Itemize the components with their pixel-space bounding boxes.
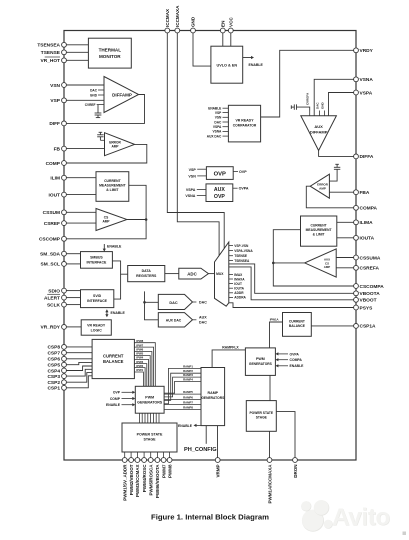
svg-text:LOGIC: LOGIC [91, 328, 103, 332]
svg-text:SM_SDA: SM_SDA [40, 252, 61, 258]
svg-text:PSYS: PSYS [360, 305, 374, 311]
svg-text:IMAXA: IMAXA [234, 277, 245, 281]
block: VR ready comparator [207, 105, 261, 142]
svg-text:THERMAL: THERMAL [99, 48, 122, 53]
wire VCC to UVLO [230, 33, 232, 47]
wire IPW8 [134, 339, 155, 386]
wire mux output to PSYS [229, 303, 354, 308]
corner mark [403, 532, 407, 536]
svg-text:DATA: DATA [142, 269, 152, 273]
svg-text:IPW7: IPW7 [136, 343, 143, 347]
pin PWM2/VBOOT [129, 458, 134, 496]
svg-text:ENABLE: ENABLE [111, 311, 126, 315]
op-amp AUX CS AMP [305, 249, 337, 277]
pin CSP5 [47, 362, 92, 368]
svg-text:GND: GND [320, 102, 324, 110]
pin PWM7 [161, 458, 166, 478]
block: current balance [92, 339, 134, 378]
svg-text:VSN: VSN [188, 175, 196, 179]
wire CM&L output / CSCOMP [66, 185, 146, 239]
svg-text:CSP2: CSP2 [47, 380, 60, 386]
svg-text:OVP: OVP [239, 170, 247, 174]
svg-text:MUX: MUX [216, 272, 224, 276]
block: power state stage [122, 423, 177, 452]
wire aux CM&L left to CSCOMPA [273, 230, 354, 286]
svg-text:IOUT: IOUT [49, 192, 61, 198]
wire CSREFA [336, 267, 354, 269]
svg-text:ICCMAX: ICCMAX [165, 8, 170, 27]
svg-text:VR READY: VR READY [87, 323, 106, 327]
wire ICCMAXA bus to mux [177, 33, 219, 260]
svg-text:CVREF: CVREF [85, 103, 96, 107]
svg-text:VSP: VSP [50, 98, 60, 104]
block: aux power state stage [246, 401, 276, 432]
pin VSNA [354, 77, 374, 83]
pin SCLK [47, 302, 81, 308]
block: SVID interface [81, 290, 114, 308]
pin SM_SDA [40, 251, 81, 257]
wire RAMP3 [164, 373, 201, 397]
svg-text:VSP: VSP [215, 111, 222, 115]
svg-text:PWM4/ROSC: PWM4/ROSC [142, 464, 147, 493]
svg-text:STAGE: STAGE [256, 415, 268, 419]
svg-text:SMBUS: SMBUS [90, 255, 103, 259]
svg-text:DIFFAMP: DIFFAMP [310, 130, 328, 135]
pin VR_HOT [41, 57, 89, 64]
mux MUX [215, 242, 254, 306]
wire+capacitor CVREFA [291, 92, 309, 111]
svg-text:MEASUREMENT: MEASUREMENT [99, 184, 126, 188]
svg-text:AMP: AMP [102, 220, 110, 224]
svg-text:IOUTA: IOUTA [234, 287, 244, 291]
svg-text:CURRENT: CURRENT [104, 179, 122, 183]
pin CSSUM [43, 210, 96, 216]
svg-text:VSPA: VSPA [213, 125, 222, 129]
svg-text:RAMP4: RAMP4 [183, 377, 193, 381]
wire RAMP4 [164, 377, 201, 393]
svg-text:COMPARATOR: COMPARATOR [233, 124, 257, 128]
svg-text:OVPA: OVPA [239, 187, 249, 191]
svg-text:CSCOMPA: CSCOMPA [360, 284, 385, 290]
svg-text:CSREFA: CSREFA [360, 266, 380, 272]
svg-text:GND: GND [90, 94, 98, 98]
svg-text:IPW2: IPW2 [136, 364, 143, 368]
svg-text:DAC: DAC [90, 89, 98, 93]
capacitor on ERROR AMP ref [97, 132, 103, 140]
pin PWM4/ROSC [142, 458, 147, 493]
wire ENABLE into SMBus [103, 244, 122, 252]
pin CSP2 [47, 373, 92, 386]
block: thermal monitor U-THERM [88, 38, 131, 68]
svg-text:CSREF: CSREF [44, 221, 60, 227]
svg-text:VR READY: VR READY [235, 119, 254, 123]
svg-text:GENERATORS: GENERATORS [201, 396, 225, 400]
pin VSPA [354, 90, 373, 96]
pin TSENSE [41, 50, 89, 56]
pin DIFF [49, 121, 66, 127]
svg-text:RAMP: RAMP [208, 391, 219, 395]
wire VSNA to AUX DIFFAMP [314, 79, 354, 115]
block: aux current measurement and limit [301, 216, 337, 246]
svg-text:ICCMAXA: ICCMAXA [175, 5, 180, 27]
pin VRDY [354, 48, 374, 54]
pin DRON [293, 458, 298, 478]
svg-text:PWM: PWM [145, 396, 154, 400]
pin IOUTA [354, 235, 375, 241]
node CS amp output junction [145, 218, 148, 221]
wire ENABLE of ramp generators [178, 424, 201, 428]
svg-text:ALERT: ALERT [44, 295, 60, 301]
svg-text:IMAX: IMAX [234, 273, 243, 277]
wire IPW7 [134, 343, 153, 386]
svg-text:OVP: OVP [214, 194, 225, 200]
pin VSN [50, 83, 104, 89]
svg-text:SDIO: SDIO [48, 288, 60, 294]
svg-text:SVID: SVID [93, 294, 102, 298]
svg-text:SCLK: SCLK [47, 302, 61, 308]
svg-text:RAMP6: RAMP6 [183, 396, 193, 400]
svg-text:AUX DAC: AUX DAC [166, 318, 182, 322]
wire ADC to mux [208, 273, 214, 275]
block: aux current balance [283, 313, 312, 337]
pin COMPA [354, 205, 378, 211]
svg-text:PWM7: PWM7 [161, 464, 166, 478]
wire RAMP2 [164, 369, 201, 400]
wire RAMP5 [164, 390, 201, 394]
pin CSCOMPA [354, 284, 385, 290]
svg-text:INTERFACE: INTERFACE [87, 299, 108, 303]
svg-text:ENABLE: ENABLE [107, 245, 122, 249]
svg-text:CURRENT: CURRENT [103, 354, 124, 359]
svg-text:CSP1A: CSP1A [360, 324, 377, 330]
svg-text:PWM: PWM [256, 357, 265, 361]
pin FB [54, 146, 105, 152]
pin PWM1A/ICCMAXA [267, 458, 272, 504]
svg-text:AUX: AUX [314, 124, 323, 129]
svg-text:DIFF: DIFF [49, 121, 60, 127]
svg-text:VR_HOT: VR_HOT [41, 58, 61, 64]
wire CS AMP output [127, 219, 146, 221]
wire ERROR AMP output to COMP [66, 144, 147, 163]
pin EN [220, 20, 225, 33]
svg-text:VBOOTA: VBOOTA [360, 291, 381, 297]
wire PWM outputs to power state stage [139, 413, 159, 423]
wire IPW3 [134, 360, 146, 387]
wire ENABLE into PWM generators [106, 403, 135, 407]
node aux CS amp junction [272, 262, 275, 265]
IC border [64, 31, 356, 461]
svg-text:ADDR: ADDR [234, 291, 244, 295]
wire RAMPFLX to aux PWM generators [212, 345, 245, 367]
wire COMPA into aux PWM generators [275, 358, 302, 362]
svg-text:PWM1A/ICCMAXA: PWM1A/ICCMAXA [267, 464, 272, 504]
block: ramp generators [201, 368, 225, 426]
svg-text:& LIMIT: & LIMIT [313, 233, 325, 237]
svg-text:COMP: COMP [46, 161, 61, 167]
wire ENABLE of SVID (bidirectional) [105, 309, 125, 317]
svg-text:AMP: AMP [319, 186, 326, 190]
svg-text:DIFFAMP: DIFFAMP [112, 93, 132, 98]
wire RAMP7 [164, 401, 201, 405]
op-amp AUX ERROR AMP [310, 174, 329, 198]
pin VCC [228, 17, 233, 33]
wire FBA input [329, 191, 354, 193]
svg-text:MONITOR: MONITOR [99, 54, 121, 59]
svg-text:VRMP: VRMP [216, 465, 221, 478]
wire IPW1A [270, 317, 283, 348]
svg-text:CSP4: CSP4 [47, 368, 60, 374]
svg-text:OVP: OVP [113, 391, 121, 395]
svg-text:DRON: DRON [293, 465, 298, 478]
svg-text:AUX: AUX [199, 316, 207, 320]
block: ADC [179, 268, 209, 279]
wire IPW6 [134, 348, 152, 387]
wire ENABLE output of UVLO [243, 56, 264, 67]
pin CSCOMP [39, 236, 66, 242]
wire SVID to data registers [114, 274, 121, 299]
svg-text:CSP7: CSP7 [47, 351, 60, 357]
svg-text:VSN: VSN [50, 83, 60, 89]
wire CSSUMA [336, 257, 354, 259]
svg-text:CSSUM: CSSUM [43, 210, 60, 216]
block: AUX DAC [158, 313, 207, 327]
svg-text:VSP: VSP [189, 168, 197, 172]
svg-text:VR_RDY: VR_RDY [41, 325, 61, 331]
pin GND [191, 16, 196, 33]
pin CSP6 [47, 356, 92, 362]
wire aux power state to PWM1A pin [269, 431, 271, 458]
wire RAMP6 [164, 396, 201, 400]
block: AUX OVP [185, 184, 249, 202]
svg-text:POWER STATE: POWER STATE [249, 411, 273, 415]
pin CSP4 [47, 366, 92, 374]
svg-text:TSENSEA: TSENSEA [37, 43, 60, 49]
svg-text:OVP: OVP [214, 172, 226, 178]
svg-text:ENABLE: ENABLE [208, 107, 221, 111]
svg-text:CSP5: CSP5 [47, 363, 60, 369]
block: VR ready logic [81, 320, 111, 335]
svg-text:PWM3/ICCMAX: PWM3/ICCMAX [135, 465, 140, 498]
wire GND to UVLO [193, 33, 211, 67]
svg-text:IPW1: IPW1 [136, 368, 143, 372]
svg-text:PWM8: PWM8 [167, 464, 172, 478]
svg-text:AMP: AMP [111, 144, 119, 148]
svg-text:IOUT: IOUT [234, 282, 242, 286]
wire IOUTA [337, 237, 354, 239]
wire DIFFAMP output to DIFF [66, 95, 144, 124]
block: OVP [188, 167, 247, 180]
svg-text:RAMPFLX: RAMPFLX [222, 345, 239, 349]
svg-text:IOUTA: IOUTA [360, 236, 375, 242]
wire OVP into PWM generators [113, 391, 135, 395]
pin DIFFA [354, 154, 374, 160]
svg-text:ENABLE: ENABLE [106, 403, 121, 407]
wire power state outputs to PWM pins [125, 452, 170, 458]
svg-text:MEASUREMENT: MEASUREMENT [306, 228, 332, 232]
svg-text:IPW1A: IPW1A [270, 317, 279, 321]
svg-text:FB: FB [54, 146, 61, 152]
op-amp AUX DIFFAMP [301, 102, 337, 151]
block: DAC [158, 294, 207, 309]
svg-text:PWM6/VBOOTA: PWM6/VBOOTA [155, 464, 160, 498]
svg-text:GND: GND [191, 16, 196, 27]
wire ENABLE into aux PWM generators [275, 364, 304, 368]
wire VSPA to AUX DIFFAMP [329, 93, 354, 116]
svg-text:CSP8: CSP8 [47, 345, 60, 351]
wire RAMP8 [164, 405, 201, 409]
svg-text:BALANCE: BALANCE [289, 324, 306, 328]
pin PWM6/VBOOTA [155, 458, 160, 499]
svg-text:VCC: VCC [229, 17, 234, 27]
svg-text:COMPA: COMPA [360, 206, 378, 212]
pin ILIM [50, 175, 96, 181]
pin CSP3 [47, 369, 92, 380]
svg-text:Avito: Avito [332, 504, 390, 531]
svg-text:VSPA-VSNA: VSPA-VSNA [234, 249, 253, 253]
svg-text:GENERATORS: GENERATORS [249, 362, 273, 366]
wire COMP into PWM generators [110, 397, 135, 401]
svg-text:TSENSE: TSENSE [234, 254, 247, 258]
svg-text:VSP-VSN: VSP-VSN [234, 244, 249, 248]
svg-text:SM_SCL: SM_SCL [41, 262, 61, 268]
block: aux PWM generators [245, 348, 275, 376]
svg-text:COMP: COMP [110, 397, 121, 401]
svg-text:ADC: ADC [187, 272, 197, 277]
wire IPW4 [134, 356, 148, 387]
svg-text:INTERFACE: INTERFACE [86, 260, 107, 264]
svg-text:ENABLE: ENABLE [290, 364, 305, 368]
pin IOUT [49, 192, 96, 198]
svg-text:& LIMIT: & LIMIT [106, 188, 119, 192]
svg-text:AUX DAC: AUX DAC [207, 134, 222, 138]
svg-text:COMPA: COMPA [290, 358, 303, 362]
wire OVPA into aux PWM generators [275, 352, 299, 356]
watermark logo circles [301, 500, 333, 532]
pin ILIMA [354, 220, 373, 226]
svg-text:ENABLE: ENABLE [178, 424, 193, 428]
pin VRMP [215, 458, 220, 478]
pin CSSUMA [354, 255, 381, 261]
pin SM_SCL [41, 262, 81, 268]
block: PWM generators [135, 386, 164, 413]
wire ramp generators to VRMP [217, 426, 219, 458]
op-amp DIFFAMP [85, 77, 139, 113]
svg-text:EN: EN [221, 20, 226, 27]
pin TSENSEA [37, 42, 88, 48]
pin COMP [46, 161, 67, 167]
svg-text:VSN: VSN [215, 116, 222, 120]
wire aux PWM to aux power state stage [269, 375, 271, 400]
svg-text:TSENSE: TSENSE [41, 50, 61, 56]
pin CSREFA [354, 265, 380, 271]
pin PWM3/ICCMAX [135, 458, 140, 497]
wire mux to VBOOTA pin [229, 264, 354, 293]
pin FBA [354, 190, 370, 196]
pin SDIO [48, 288, 80, 294]
wire mux to VBOOT pin [229, 267, 354, 300]
pin CSP1 [47, 376, 92, 392]
svg-text:PWM1/SV_ADDR: PWM1/SV_ADDR [123, 464, 128, 501]
node DAC feed junction [143, 301, 146, 304]
wire RAMP1 [164, 364, 201, 403]
svg-text:GENERATORS: GENERATORS [137, 400, 163, 404]
svg-text:CSP3: CSP3 [47, 374, 60, 380]
svg-text:DAC: DAC [214, 120, 222, 124]
capacitor on AUX ERROR AMP ref [329, 164, 340, 181]
svg-text:RAMP1: RAMP1 [183, 364, 193, 368]
svg-text:RAMP7: RAMP7 [183, 401, 193, 405]
svg-text:IPW8: IPW8 [136, 339, 143, 343]
svg-text:VRDY: VRDY [360, 48, 374, 54]
pin CSP8 [47, 345, 92, 351]
svg-text:CURRENT: CURRENT [289, 320, 305, 324]
svg-text:CSCOMP: CSCOMP [39, 237, 61, 243]
svg-text:CSP1: CSP1 [47, 386, 60, 392]
svg-text:UVLO & EN: UVLO & EN [216, 64, 237, 68]
wire AUX CS AMP output [273, 262, 304, 264]
pin ALERT [44, 294, 81, 301]
svg-text:FBA: FBA [360, 190, 370, 196]
svg-text:VSPA: VSPA [360, 90, 373, 96]
wire comparator output to VRDY [261, 50, 354, 117]
svg-text:STAGE: STAGE [143, 438, 156, 442]
pin VBOOT [354, 297, 377, 303]
pin PWM8 [167, 458, 172, 478]
op-amp ERROR AMP [100, 133, 134, 156]
svg-text:VSPA: VSPA [186, 188, 196, 192]
wire IPW1 [134, 368, 143, 386]
svg-text:DAC: DAC [199, 301, 207, 305]
wire ICCMAX bus to mux [167, 33, 224, 249]
svg-text:VSNA: VSNA [360, 77, 374, 83]
pin VSP [50, 98, 104, 104]
svg-text:DAC: DAC [169, 301, 177, 305]
wire DRON [276, 412, 295, 458]
wire CSP1A [311, 325, 354, 327]
svg-text:ADDRA: ADDRA [234, 296, 246, 300]
svg-text:CSSUMA: CSSUMA [360, 255, 381, 261]
pin VBOOTA [354, 291, 381, 297]
pin CSP1A [354, 324, 376, 330]
svg-text:ENABLE: ENABLE [249, 63, 264, 67]
op-amp CS AMP [96, 209, 127, 231]
svg-text:DAC: DAC [315, 102, 319, 109]
pin ICCMAXA [175, 5, 180, 33]
svg-text:ILIM: ILIM [50, 176, 60, 182]
svg-text:AMP: AMP [324, 265, 330, 269]
block: UVLO and EN [211, 46, 243, 83]
pin CSP7 [47, 350, 92, 356]
svg-text:TSENSEA: TSENSEA [234, 259, 250, 263]
svg-text:CSP6: CSP6 [47, 357, 60, 363]
svg-text:VBOOT: VBOOT [360, 298, 377, 304]
svg-text:PWM5/ROSCA: PWM5/ROSCA [149, 464, 154, 496]
svg-text:BALANCE: BALANCE [103, 359, 124, 364]
wire EN to UVLO [222, 33, 224, 47]
svg-text:RAMP8: RAMP8 [183, 405, 193, 409]
svg-text:PWM2/VBOOT: PWM2/VBOOT [129, 464, 134, 495]
pin PWM5/ROSCA [148, 458, 153, 496]
svg-text:OVPA: OVPA [290, 352, 300, 356]
pin PWM1/SV_ADDR [122, 458, 127, 501]
wire IPW2 [134, 364, 145, 387]
svg-text:RAMP5: RAMP5 [183, 390, 193, 394]
svg-text:PH_CONFIG: PH_CONFIG [184, 447, 217, 453]
pin ICCMAX [165, 8, 170, 33]
wire IPW5 [134, 352, 150, 387]
wire PH_CONFIG stub [184, 426, 217, 453]
svg-text:DAC: DAC [199, 321, 207, 325]
